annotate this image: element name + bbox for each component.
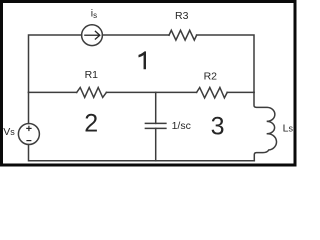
wire: R2 to right vertical junction (227, 91, 254, 93)
wire: R3 to top-right corner, down right side (197, 35, 254, 92)
wire: left vertical above Vs (28, 92, 30, 123)
svg-text:R2: R2 (204, 71, 218, 83)
Vs plus sign (26, 126, 31, 141)
resistor R1 (77, 88, 107, 98)
svg-text:1/sc: 1/sc (172, 120, 191, 132)
svg-text:Vs: Vs (3, 126, 15, 138)
wire: capacitor branch bottom (155, 128, 157, 160)
svg-text:R1: R1 (85, 69, 99, 81)
capacitor C top plate (145, 122, 166, 124)
wire: left vertical below Vs to bottom (29, 145, 156, 161)
capacitor C bottom plate (145, 127, 166, 129)
Vs minus sign (26, 140, 31, 142)
mesh label 1 (drawn as path, Arial-style without foot serif) (139, 51, 147, 69)
resistor R2 (197, 88, 228, 98)
svg-text:2: 2 (84, 109, 98, 137)
current source arrow (84, 31, 100, 40)
wire: bottom segment to inductor (156, 160, 255, 162)
svg-text:Ls: Ls (283, 122, 294, 134)
svg-text:3: 3 (211, 113, 225, 141)
svg-text:R3: R3 (175, 10, 189, 22)
border frame (2, 2, 296, 166)
wire: R1 to R2 through capacitor node (106, 91, 196, 93)
wire: middle left segment (29, 91, 77, 93)
wire: current source to R3 (102, 34, 169, 36)
voltage source Vs (18, 124, 39, 145)
current source i_s (82, 25, 103, 46)
inductor Ls (254, 92, 277, 160)
resistor R3 (169, 30, 197, 40)
wire: top-left horizontal (left corner to current source) (29, 35, 82, 92)
wire: capacitor branch top (155, 92, 157, 123)
